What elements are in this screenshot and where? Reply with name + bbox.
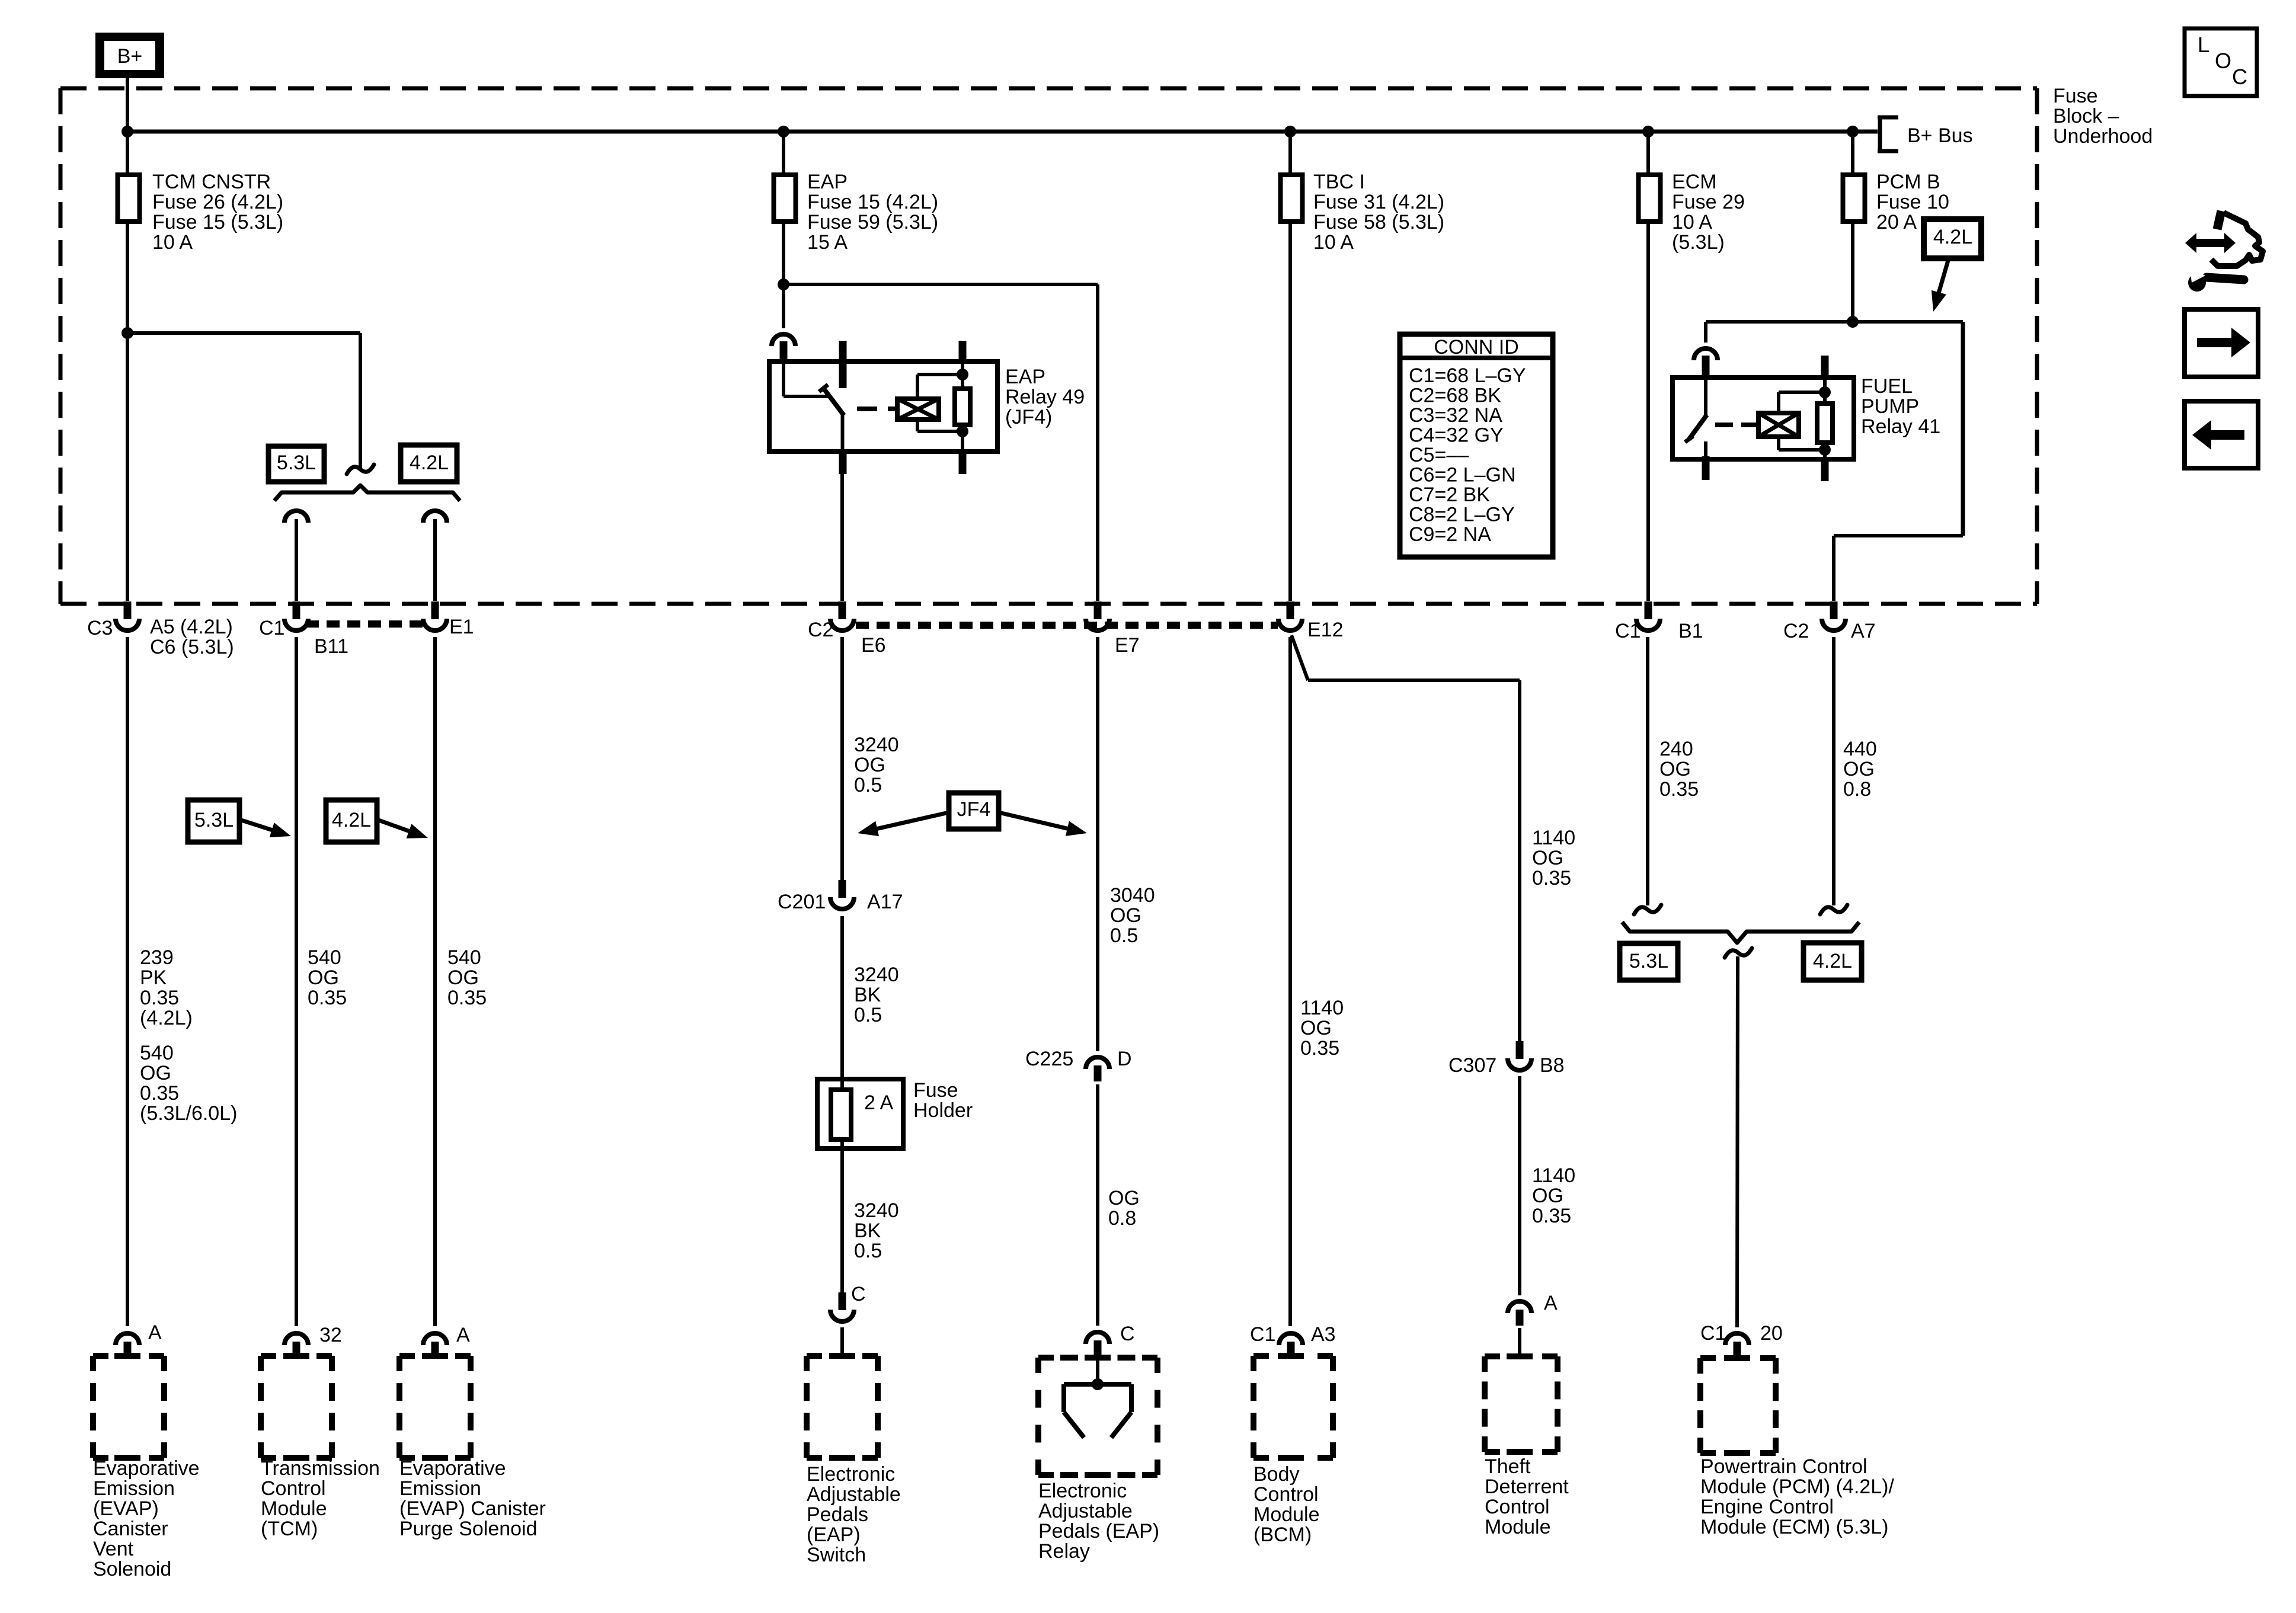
- svg-text:D: D: [1117, 1048, 1132, 1070]
- svg-text:Canister: Canister: [93, 1518, 168, 1540]
- svg-text:C5=––: C5=––: [1409, 444, 1469, 466]
- svg-text:Fuse 59 (5.3L): Fuse 59 (5.3L): [807, 211, 938, 233]
- svg-text:239: 239: [140, 946, 174, 969]
- svg-text:Evaporative: Evaporative: [399, 1457, 506, 1480]
- svg-text:Module: Module: [261, 1497, 327, 1520]
- svg-text:L: L: [2198, 33, 2209, 57]
- svg-text:0.8: 0.8: [1108, 1207, 1136, 1230]
- svg-text:240: 240: [1659, 738, 1693, 760]
- svg-text:(EAP): (EAP): [807, 1524, 861, 1546]
- svg-text:TCM CNSTR: TCM CNSTR: [152, 171, 271, 193]
- svg-text:OG: OG: [308, 966, 339, 989]
- svg-text:0.35: 0.35: [308, 987, 347, 1009]
- svg-text:E1: E1: [449, 616, 474, 638]
- svg-text:32: 32: [319, 1324, 342, 1346]
- svg-text:10 A: 10 A: [1672, 211, 1712, 233]
- svg-text:Switch: Switch: [807, 1544, 866, 1566]
- svg-text:OG: OG: [1532, 847, 1563, 869]
- svg-text:5.3L: 5.3L: [1629, 950, 1668, 972]
- svg-text:TBC I: TBC I: [1313, 171, 1365, 193]
- svg-text:Control: Control: [1485, 1496, 1550, 1518]
- svg-text:C1=68 L–GY: C1=68 L–GY: [1409, 364, 1526, 387]
- svg-text:Module: Module: [1253, 1503, 1320, 1526]
- svg-text:A: A: [148, 1321, 162, 1344]
- svg-text:B+: B+: [117, 45, 143, 68]
- svg-text:Body: Body: [1253, 1463, 1300, 1486]
- svg-text:OG: OG: [1110, 904, 1141, 927]
- svg-text:0.35: 0.35: [1659, 778, 1699, 801]
- svg-text:C6 (5.3L): C6 (5.3L): [150, 636, 234, 658]
- svg-text:Emission: Emission: [399, 1477, 481, 1500]
- svg-text:PCM B: PCM B: [1876, 171, 1940, 193]
- svg-text:Vent: Vent: [93, 1538, 134, 1560]
- svg-text:440: 440: [1843, 738, 1877, 760]
- svg-text:4.2L: 4.2L: [1813, 950, 1852, 972]
- svg-text:OG: OG: [854, 754, 885, 776]
- svg-text:Underhood: Underhood: [2053, 125, 2153, 148]
- svg-text:3240: 3240: [854, 964, 899, 986]
- svg-text:Relay 49: Relay 49: [1005, 386, 1085, 408]
- svg-text:Emission: Emission: [93, 1477, 175, 1500]
- svg-text:(EVAP): (EVAP): [93, 1497, 159, 1520]
- svg-text:OG: OG: [447, 966, 479, 989]
- svg-text:EAP: EAP: [1005, 366, 1045, 388]
- svg-text:BK: BK: [854, 984, 881, 1006]
- svg-text:Relay 41: Relay 41: [1861, 415, 1940, 438]
- svg-text:(5.3L): (5.3L): [1672, 231, 1725, 254]
- svg-text:540: 540: [447, 946, 481, 969]
- svg-text:20 A: 20 A: [1876, 211, 1917, 233]
- svg-text:OG: OG: [1300, 1017, 1332, 1039]
- svg-text:A7: A7: [1851, 620, 1876, 642]
- svg-text:B11: B11: [314, 635, 348, 658]
- svg-text:Block –: Block –: [2053, 105, 2119, 127]
- svg-text:Solenoid: Solenoid: [93, 1558, 171, 1580]
- svg-text:Fuse 15 (5.3L): Fuse 15 (5.3L): [152, 211, 283, 233]
- svg-text:EAP: EAP: [807, 171, 848, 193]
- svg-text:4.2L: 4.2L: [410, 452, 449, 474]
- svg-text:C2: C2: [808, 619, 833, 641]
- svg-text:C: C: [851, 1283, 866, 1305]
- svg-text:(EVAP) Canister: (EVAP) Canister: [399, 1497, 546, 1520]
- svg-text:C307: C307: [1448, 1054, 1496, 1077]
- svg-text:C3: C3: [87, 617, 113, 639]
- svg-text:Module (ECM) (5.3L): Module (ECM) (5.3L): [1700, 1516, 1888, 1538]
- svg-text:E7: E7: [1115, 634, 1140, 657]
- svg-text:Adjustable: Adjustable: [1038, 1500, 1133, 1522]
- svg-text:2 A: 2 A: [864, 1092, 893, 1114]
- svg-text:C: C: [1120, 1323, 1135, 1345]
- svg-text:3040: 3040: [1110, 884, 1155, 907]
- svg-text:C8=2 L–GY: C8=2 L–GY: [1409, 504, 1515, 526]
- svg-text:Relay: Relay: [1038, 1540, 1090, 1563]
- svg-text:Fuse 15 (4.2L): Fuse 15 (4.2L): [807, 191, 938, 213]
- svg-text:0.35: 0.35: [447, 987, 487, 1009]
- svg-text:PUMP: PUMP: [1861, 395, 1919, 418]
- svg-text:Transmission: Transmission: [261, 1457, 380, 1480]
- svg-text:1140: 1140: [1532, 827, 1575, 849]
- svg-text:10 A: 10 A: [152, 231, 193, 254]
- svg-text:0.35: 0.35: [140, 987, 179, 1009]
- svg-text:Module: Module: [1485, 1516, 1551, 1538]
- svg-text:B+ Bus: B+ Bus: [1907, 124, 1973, 147]
- svg-text:Engine Control: Engine Control: [1700, 1496, 1834, 1518]
- svg-text:(5.3L/6.0L): (5.3L/6.0L): [140, 1102, 237, 1125]
- svg-text:5.3L: 5.3L: [277, 452, 316, 474]
- svg-text:OG: OG: [1659, 758, 1691, 780]
- svg-text:15 A: 15 A: [807, 231, 848, 254]
- svg-text:O: O: [2215, 49, 2231, 73]
- svg-text:Pedals (EAP): Pedals (EAP): [1038, 1520, 1159, 1542]
- svg-text:0.5: 0.5: [854, 774, 882, 796]
- svg-text:Theft: Theft: [1485, 1455, 1531, 1478]
- svg-text:Module (PCM) (4.2L)/: Module (PCM) (4.2L)/: [1700, 1476, 1894, 1498]
- svg-text:OG: OG: [140, 1062, 171, 1084]
- svg-text:A17: A17: [867, 891, 903, 913]
- svg-text:B8: B8: [1540, 1054, 1565, 1077]
- svg-text:A5 (4.2L): A5 (4.2L): [150, 616, 233, 638]
- svg-text:Evaporative: Evaporative: [93, 1457, 200, 1480]
- svg-text:540: 540: [308, 946, 341, 969]
- svg-text:Fuse: Fuse: [2053, 85, 2098, 107]
- svg-text:C1: C1: [1250, 1323, 1275, 1346]
- svg-text:B1: B1: [1678, 620, 1703, 642]
- svg-text:C6=2 L–GN: C6=2 L–GN: [1409, 464, 1516, 487]
- svg-text:Control: Control: [1253, 1483, 1319, 1506]
- svg-text:C9=2 NA: C9=2 NA: [1409, 523, 1491, 546]
- svg-text:Fuse 26 (4.2L): Fuse 26 (4.2L): [152, 191, 283, 213]
- svg-text:C3=32 NA: C3=32 NA: [1409, 404, 1502, 427]
- svg-text:Adjustable: Adjustable: [807, 1483, 901, 1506]
- svg-text:0.8: 0.8: [1843, 778, 1871, 801]
- svg-text:1140: 1140: [1532, 1164, 1575, 1187]
- svg-text:Control: Control: [261, 1477, 326, 1500]
- svg-text:0.35: 0.35: [1532, 1205, 1571, 1227]
- svg-text:0.35: 0.35: [140, 1082, 179, 1105]
- svg-text:Fuse 29: Fuse 29: [1672, 191, 1745, 213]
- svg-text:C: C: [2232, 65, 2247, 89]
- svg-text:C1: C1: [1700, 1322, 1726, 1345]
- svg-text:(TCM): (TCM): [261, 1518, 318, 1540]
- svg-text:Fuse 58 (5.3L): Fuse 58 (5.3L): [1313, 211, 1444, 233]
- svg-text:Pedals: Pedals: [807, 1503, 868, 1526]
- svg-text:A: A: [456, 1324, 470, 1346]
- svg-text:Deterrent: Deterrent: [1485, 1476, 1569, 1498]
- svg-text:C1: C1: [1615, 620, 1641, 642]
- svg-text:0.35: 0.35: [1300, 1037, 1339, 1060]
- svg-text:Purge Solenoid: Purge Solenoid: [399, 1518, 538, 1540]
- svg-text:C2=68 BK: C2=68 BK: [1409, 385, 1501, 407]
- svg-text:A3: A3: [1311, 1323, 1336, 1346]
- svg-text:E12: E12: [1307, 619, 1344, 641]
- svg-text:OG: OG: [1843, 758, 1875, 780]
- svg-text:Powertrain Control: Powertrain Control: [1700, 1455, 1868, 1478]
- svg-text:ECM: ECM: [1672, 171, 1717, 193]
- svg-text:Electronic: Electronic: [1038, 1480, 1127, 1502]
- svg-text:OG: OG: [1532, 1185, 1563, 1207]
- svg-text:C225: C225: [1025, 1048, 1073, 1070]
- svg-text:C7=2 BK: C7=2 BK: [1409, 484, 1490, 506]
- svg-text:4.2L: 4.2L: [332, 809, 371, 831]
- svg-text:FUEL: FUEL: [1861, 375, 1913, 398]
- svg-text:3240: 3240: [854, 1199, 899, 1222]
- svg-text:(4.2L): (4.2L): [140, 1007, 193, 1029]
- svg-text:PK: PK: [140, 966, 167, 989]
- svg-text:CONN ID: CONN ID: [1434, 336, 1519, 359]
- svg-text:4.2L: 4.2L: [1933, 226, 1972, 248]
- svg-text:E6: E6: [861, 634, 886, 657]
- svg-text:0.5: 0.5: [854, 1240, 882, 1262]
- svg-text:C201: C201: [778, 891, 826, 913]
- svg-text:1140: 1140: [1300, 997, 1344, 1019]
- svg-text:BK: BK: [854, 1220, 881, 1242]
- svg-text:Holder: Holder: [913, 1099, 973, 1122]
- svg-text:Fuse 31 (4.2L): Fuse 31 (4.2L): [1313, 191, 1444, 213]
- svg-text:20: 20: [1760, 1322, 1783, 1345]
- svg-text:C1: C1: [259, 617, 284, 639]
- svg-text:C4=32 GY: C4=32 GY: [1409, 424, 1504, 447]
- svg-text:Electronic: Electronic: [807, 1463, 895, 1486]
- svg-text:A: A: [1544, 1292, 1558, 1314]
- svg-text:Fuse 10: Fuse 10: [1876, 191, 1949, 213]
- svg-text:10 A: 10 A: [1313, 231, 1354, 254]
- svg-text:OG: OG: [1108, 1187, 1140, 1209]
- svg-text:JF4: JF4: [957, 798, 991, 821]
- svg-text:C2: C2: [1783, 620, 1809, 642]
- svg-text:0.5: 0.5: [854, 1004, 882, 1026]
- svg-text:540: 540: [140, 1042, 174, 1064]
- svg-text:0.5: 0.5: [1110, 924, 1138, 947]
- svg-text:0.35: 0.35: [1532, 867, 1571, 889]
- svg-text:5.3L: 5.3L: [194, 809, 234, 831]
- svg-text:(JF4): (JF4): [1005, 406, 1052, 428]
- svg-text:3240: 3240: [854, 734, 899, 756]
- svg-text:Fuse: Fuse: [913, 1079, 958, 1102]
- svg-text:(BCM): (BCM): [1253, 1524, 1312, 1546]
